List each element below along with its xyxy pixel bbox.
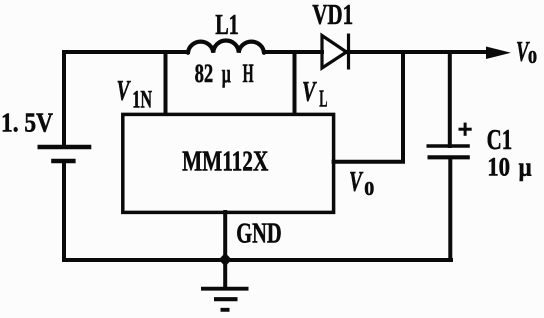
svg-text:C1: C1 [487, 124, 513, 156]
label L1 [215, 9, 239, 41]
wire Vin pin [164, 52, 168, 114]
pin label V1N [117, 76, 153, 113]
value 82uH [195, 58, 254, 88]
label VD1 [312, 0, 353, 31]
wire inductor to diode anode [264, 50, 322, 54]
svg-text:μ: μ [222, 58, 231, 88]
label 1.5V [1, 108, 53, 138]
svg-text:VD1: VD1 [312, 0, 353, 31]
svg-text:μ: μ [519, 152, 532, 181]
label Vo output [516, 36, 537, 68]
svg-text:1N: 1N [132, 86, 152, 113]
IC U1 MM112X [123, 114, 334, 212]
pin label GND [236, 218, 281, 249]
svg-text:0: 0 [528, 47, 537, 67]
svg-text:V: V [117, 76, 132, 107]
diode VD1 [322, 34, 349, 70]
svg-text:V: V [302, 77, 317, 108]
label MM112X [182, 145, 268, 177]
svg-text:H: H [243, 58, 254, 88]
inductor L1 [188, 41, 264, 53]
svg-text:0: 0 [364, 178, 374, 200]
svg-text:GND: GND [236, 218, 281, 249]
ground [201, 260, 249, 310]
wire GND pin [223, 212, 227, 260]
wire capacitor branch bottom [448, 158, 452, 261]
label C1 [487, 124, 513, 156]
svg-text:L: L [319, 86, 327, 112]
wire Vo feedback [334, 52, 403, 162]
wire battery negative down to bottom rail [64, 163, 451, 260]
wire diode cathode to output arrow [349, 50, 491, 54]
svg-text:L1: L1 [215, 9, 239, 41]
value 10u [487, 152, 532, 181]
svg-text:V: V [349, 167, 364, 198]
pin label Vo [349, 167, 374, 200]
output arrow [486, 47, 511, 60]
svg-text:1. 5V: 1. 5V [1, 108, 53, 138]
junction node [219, 253, 232, 267]
svg-text:MM112X: MM112X [182, 145, 268, 177]
plus sign [459, 123, 472, 136]
svg-text:10: 10 [487, 152, 510, 181]
svg-text:82: 82 [195, 58, 214, 88]
battery 1.5V [38, 147, 92, 161]
wire VL pin [293, 52, 297, 114]
wire top rail from battery to inductor [64, 52, 188, 145]
pin label VL [302, 77, 328, 112]
capacitor C1 [427, 146, 470, 157]
wire capacitor branch top [448, 52, 452, 146]
